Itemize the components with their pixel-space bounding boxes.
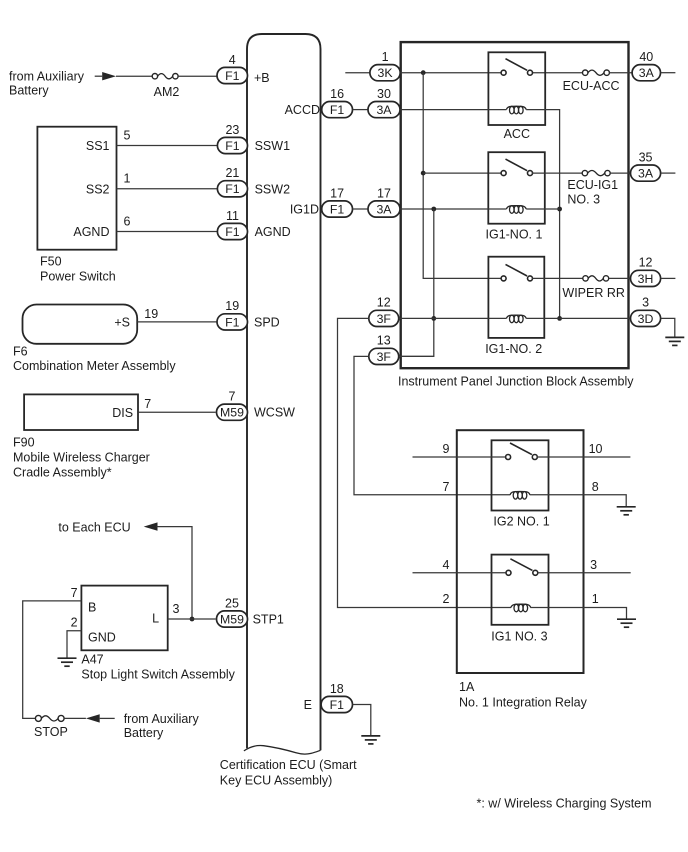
svg-text:3K: 3K bbox=[378, 66, 394, 80]
svg-text:STP1: STP1 bbox=[253, 613, 284, 627]
svg-text:5: 5 bbox=[124, 128, 131, 142]
svg-text:F1: F1 bbox=[330, 103, 345, 117]
connector F1 pin 11 (AGND) bbox=[217, 209, 247, 240]
wire IG1 NO.3 coil to ground bbox=[530, 608, 626, 620]
connector 3A pin 40 bbox=[632, 50, 660, 81]
ground symbol pin 8 bbox=[617, 507, 636, 515]
svg-text:from Auxiliary: from Auxiliary bbox=[124, 712, 200, 726]
connector F1 pin 16 (ACCD) bbox=[322, 87, 353, 118]
wire 3F-12 to IG1-NO.2 coil bbox=[399, 317, 507, 319]
svg-text:SSW1: SSW1 bbox=[255, 139, 290, 153]
svg-text:35: 35 bbox=[639, 150, 653, 164]
relay IG1-NO.1 coil bbox=[506, 206, 526, 214]
svg-text:2: 2 bbox=[443, 592, 450, 606]
connector F1 pin 4 (+B) bbox=[217, 53, 248, 84]
svg-text:3: 3 bbox=[642, 296, 649, 310]
svg-text:A47: A47 bbox=[81, 652, 103, 666]
connector M59 pin 25 (STP1) bbox=[217, 596, 248, 627]
fuse AM2 bbox=[152, 74, 179, 100]
svg-text:DIS: DIS bbox=[112, 406, 133, 420]
svg-text:Instrument Panel Junction Bloc: Instrument Panel Junction Block Assembly bbox=[398, 375, 634, 389]
svg-text:11: 11 bbox=[226, 209, 239, 223]
svg-text:F1: F1 bbox=[225, 225, 240, 239]
svg-text:NO. 3: NO. 3 bbox=[567, 193, 600, 207]
svg-text:Mobile Wireless Charger: Mobile Wireless Charger bbox=[13, 451, 150, 465]
arrow from Auxiliary Battery (points left) bbox=[86, 714, 115, 722]
wire pin 4 stub to IG1 NO.3 switch bbox=[413, 572, 506, 574]
wire IG2 NO.1 switch to pin 10 stub bbox=[537, 456, 631, 458]
wire to IG1-NO.1 switch bbox=[423, 172, 501, 174]
ECU wavy bottom edge bbox=[244, 746, 321, 755]
svg-text:3H: 3H bbox=[638, 272, 654, 286]
svg-text:8: 8 bbox=[592, 480, 599, 494]
svg-text:19: 19 bbox=[144, 307, 158, 321]
svg-text:F1: F1 bbox=[225, 69, 240, 83]
ground symbol E pin bbox=[361, 736, 380, 744]
relay IG1-NO.1 box bbox=[488, 152, 545, 224]
connector 3H pin 12 bbox=[631, 256, 661, 287]
svg-text:Battery: Battery bbox=[124, 726, 164, 740]
svg-text:3F: 3F bbox=[377, 312, 392, 326]
svg-text:L: L bbox=[152, 612, 159, 626]
wire ACC switch to fuse ECU-ACC bbox=[532, 72, 583, 74]
svg-text:SPD: SPD bbox=[254, 315, 280, 329]
wire IG1-NO.1 coil to common bbox=[526, 208, 559, 210]
svg-text:M59: M59 bbox=[220, 612, 244, 626]
svg-text:13: 13 bbox=[377, 334, 391, 348]
svg-text:F50: F50 bbox=[40, 255, 62, 269]
svg-text:2: 2 bbox=[71, 615, 78, 629]
stub wire right of 3H-12 bbox=[661, 277, 676, 279]
svg-text:3A: 3A bbox=[376, 202, 392, 216]
fuse ECU-ACC bbox=[563, 70, 620, 93]
connector M59 pin 7 (WCSW) bbox=[217, 390, 248, 421]
svg-text:WCSW: WCSW bbox=[254, 406, 295, 420]
junction node A top bbox=[421, 70, 426, 75]
svg-text:7: 7 bbox=[144, 397, 151, 411]
svg-text:Power Switch: Power Switch bbox=[40, 270, 116, 284]
wire +S to F1 bbox=[137, 321, 217, 323]
relay IG1 NO.3 box bbox=[492, 555, 549, 625]
connector 3F pin 12 bbox=[369, 296, 399, 327]
connector F1 pin 17 (IG1D) bbox=[322, 186, 353, 217]
svg-text:F1: F1 bbox=[330, 202, 345, 216]
wire IG1-NO.2 switch to fuse bbox=[532, 277, 583, 279]
svg-text:1: 1 bbox=[592, 592, 599, 606]
fuse STOP bbox=[34, 715, 68, 739]
svg-text:B: B bbox=[88, 601, 96, 615]
junction node coil common at IG1-NO.1 bbox=[557, 207, 562, 212]
svg-text:Cradle Assembly*: Cradle Assembly* bbox=[13, 466, 112, 480]
svg-text:3A: 3A bbox=[639, 66, 655, 80]
svg-text:30: 30 bbox=[377, 87, 391, 101]
wire SS1 to F1 bbox=[117, 145, 218, 147]
svg-text:from Auxiliary: from Auxiliary bbox=[9, 70, 85, 84]
svg-text:Combination Meter Assembly: Combination Meter Assembly bbox=[13, 359, 176, 373]
power switch F50 box bbox=[37, 127, 116, 250]
vertical wire IG1D feed bbox=[399, 209, 434, 356]
svg-text:18: 18 bbox=[330, 682, 344, 696]
svg-text:F1: F1 bbox=[330, 698, 345, 712]
wire 3F-13 down to IG2 NO.1 coil bbox=[354, 356, 510, 494]
junction node B top bbox=[431, 207, 436, 212]
svg-text:16: 16 bbox=[330, 87, 344, 101]
svg-text:F6: F6 bbox=[13, 345, 28, 359]
svg-text:3: 3 bbox=[590, 558, 597, 572]
svg-text:25: 25 bbox=[225, 596, 239, 610]
wire E to ground bbox=[353, 705, 371, 736]
connector F1 pin 18 (E) bbox=[321, 682, 352, 713]
ground symbol stop light switch bbox=[58, 658, 77, 666]
svg-text:10: 10 bbox=[589, 442, 603, 456]
svg-text:19: 19 bbox=[225, 299, 239, 313]
connector 3A pin 17 bbox=[368, 186, 400, 217]
wire 3F-12 down to IG1 NO.3 coil bbox=[338, 318, 512, 607]
svg-text:1A: 1A bbox=[459, 680, 475, 694]
stop light switch A47 box bbox=[81, 586, 167, 651]
svg-text:Stop Light Switch Assembly: Stop Light Switch Assembly bbox=[81, 668, 235, 682]
relay IG2 NO.1 switch contact bbox=[506, 443, 538, 460]
wire ACC coil to common vertical bbox=[526, 110, 559, 319]
connector F1 pin 19 (SPD) bbox=[217, 299, 248, 330]
svg-text:F1: F1 bbox=[225, 139, 240, 153]
svg-text:+B: +B bbox=[254, 71, 270, 85]
svg-text:Battery: Battery bbox=[9, 84, 49, 98]
wire fuse to 3A-40 bbox=[609, 72, 632, 74]
wire F1-17 to 3A-17 bbox=[353, 208, 369, 210]
wire SS2 to F1 bbox=[117, 188, 218, 190]
relay IG1-NO.2 switch contact bbox=[501, 264, 532, 281]
connector F1 pin 23 (SSW1) bbox=[217, 123, 247, 154]
wire 3K to ACC switch bbox=[400, 72, 501, 74]
wire AGND to F1 bbox=[117, 231, 218, 233]
svg-text:3: 3 bbox=[173, 602, 180, 616]
svg-text:1: 1 bbox=[124, 172, 131, 186]
fuse WIPER RR bbox=[562, 276, 625, 300]
svg-text:9: 9 bbox=[443, 442, 450, 456]
svg-text:F90: F90 bbox=[13, 436, 35, 450]
relay IG1 NO.3 coil bbox=[511, 604, 531, 612]
connector F1 pin 21 (SSW2) bbox=[217, 166, 247, 197]
wire to Each ECU branch bbox=[157, 527, 193, 619]
stub wire left of 3K bbox=[345, 72, 370, 74]
wire fuse AM2 to connector F1 bbox=[178, 75, 217, 77]
wire GND to ground bbox=[67, 631, 81, 659]
svg-text:IG2 NO. 1: IG2 NO. 1 bbox=[493, 515, 549, 529]
svg-text:IG1D: IG1D bbox=[290, 203, 319, 217]
vertical wire switch feed bbox=[423, 73, 501, 279]
stub wire right of 3A-40 bbox=[661, 72, 676, 74]
relay IG1-NO.2 box bbox=[488, 257, 544, 338]
svg-text:IG1-NO. 1: IG1-NO. 1 bbox=[486, 228, 543, 242]
arrow to Each ECU (points left) bbox=[144, 522, 158, 530]
svg-text:6: 6 bbox=[124, 214, 131, 228]
wireless charger F90 box bbox=[24, 394, 138, 430]
svg-text:IG1 NO. 3: IG1 NO. 3 bbox=[491, 629, 547, 643]
svg-text:F1: F1 bbox=[225, 182, 240, 196]
svg-text:21: 21 bbox=[225, 166, 239, 180]
wire STOP fuse to arrow bbox=[64, 717, 86, 719]
wire arrow to fuse AM2 bbox=[116, 75, 152, 77]
No.1 Integration Relay outer box bbox=[457, 430, 584, 673]
svg-text:to Each ECU: to Each ECU bbox=[58, 520, 130, 534]
connector 3A pin 30 bbox=[368, 87, 400, 118]
svg-text:WIPER RR: WIPER RR bbox=[562, 286, 625, 300]
wire IG1 NO.3 switch to pin 3 stub bbox=[537, 572, 630, 574]
svg-text:3F: 3F bbox=[377, 350, 392, 364]
svg-text:STOP: STOP bbox=[34, 725, 68, 739]
svg-text:3A: 3A bbox=[638, 167, 654, 181]
junction node on STP1 wire bbox=[190, 617, 195, 622]
wire fuse to 3H-12 bbox=[609, 277, 631, 279]
svg-text:GND: GND bbox=[88, 631, 116, 645]
ground symbol 3D bbox=[665, 337, 684, 345]
wire IG1-NO.1 switch to fuse bbox=[532, 172, 582, 174]
wire pin 9 stub to IG2 NO.1 switch bbox=[413, 456, 506, 458]
relay IG2 NO.1 coil bbox=[510, 491, 530, 499]
svg-text:23: 23 bbox=[225, 123, 239, 137]
svg-text:AGND: AGND bbox=[255, 225, 291, 239]
svg-text:17: 17 bbox=[330, 186, 344, 200]
wire DIS to M59 bbox=[138, 411, 216, 413]
svg-text:AM2: AM2 bbox=[154, 85, 180, 99]
svg-text:AGND: AGND bbox=[73, 225, 109, 239]
Instrument Panel Junction Block box bbox=[401, 42, 629, 368]
svg-text:3D: 3D bbox=[638, 312, 654, 326]
svg-text:+S: +S bbox=[114, 315, 130, 329]
svg-text:ACCD: ACCD bbox=[285, 103, 320, 117]
svg-text:Key ECU Assembly): Key ECU Assembly) bbox=[220, 773, 333, 787]
connector 3K pin 1 bbox=[370, 50, 400, 81]
svg-text:M59: M59 bbox=[220, 406, 244, 420]
relay ACC box bbox=[488, 52, 545, 125]
relay IG1-NO.1 switch contact bbox=[501, 159, 532, 176]
wire 3D-3 to ground bbox=[661, 318, 675, 337]
svg-text:ACC: ACC bbox=[504, 127, 530, 141]
svg-text:7: 7 bbox=[443, 480, 450, 494]
junction node B at IG1-NO.2 coil bbox=[431, 316, 436, 321]
combination meter F6 box bbox=[23, 305, 138, 344]
wire fuse to 3A-35 bbox=[610, 172, 630, 174]
wire IG2 NO.1 coil to ground bbox=[530, 495, 627, 507]
fuse ECU-IG1 NO.3 bbox=[582, 170, 610, 175]
relay IG1 NO.3 switch contact bbox=[506, 559, 538, 576]
wire L to M59 (STP1) bbox=[168, 618, 216, 620]
Certification ECU body outline bbox=[247, 34, 321, 750]
relay ACC switch contact bbox=[501, 59, 532, 75]
svg-text:12: 12 bbox=[639, 256, 653, 270]
svg-text:4: 4 bbox=[229, 53, 236, 67]
relay IG1-NO.2 coil bbox=[506, 315, 526, 323]
junction node A at IG1-NO.1 switch bbox=[421, 171, 426, 176]
svg-text:12: 12 bbox=[377, 296, 391, 310]
wire IG1-NO.2 coil to 3D-3 bbox=[526, 317, 630, 319]
svg-text:7: 7 bbox=[229, 390, 236, 404]
svg-text:17: 17 bbox=[377, 186, 391, 200]
svg-text:ECU-ACC: ECU-ACC bbox=[563, 79, 620, 93]
svg-text:4: 4 bbox=[443, 558, 450, 572]
svg-text:SS2: SS2 bbox=[86, 182, 110, 196]
connector 3F pin 13 bbox=[369, 334, 399, 365]
svg-text:F1: F1 bbox=[225, 315, 240, 329]
wire F1-16 to 3A-30 bbox=[353, 109, 369, 111]
svg-text:Certification ECU (Smart: Certification ECU (Smart bbox=[220, 758, 357, 772]
wire 3F-13 to vertical B bbox=[399, 355, 434, 357]
wire 3A-30 to ACC coil bbox=[400, 109, 506, 111]
relay ACC coil bbox=[506, 106, 526, 114]
svg-text:No. 1 Integration Relay: No. 1 Integration Relay bbox=[459, 696, 588, 710]
svg-text:ECU-IG1: ECU-IG1 bbox=[567, 178, 618, 192]
junction node coil common at IG1-NO.2 bbox=[557, 316, 562, 321]
ground symbol pin 1 bbox=[617, 619, 636, 627]
wire B to STOP fuse bbox=[23, 601, 82, 719]
relay IG2 NO.1 box bbox=[492, 440, 549, 510]
svg-text:E: E bbox=[304, 698, 312, 712]
svg-text:*: w/ Wireless Charging System: *: w/ Wireless Charging System bbox=[477, 797, 652, 811]
connector 3D pin 3 bbox=[631, 296, 661, 327]
svg-text:1: 1 bbox=[382, 50, 389, 64]
svg-text:7: 7 bbox=[71, 586, 78, 600]
svg-text:40: 40 bbox=[639, 50, 653, 64]
svg-text:SSW2: SSW2 bbox=[255, 182, 290, 196]
wire 3A-17 to IG1-NO.1 coil bbox=[400, 208, 506, 210]
arrow to +B wire (points right) bbox=[95, 72, 116, 80]
connector 3A pin 35 bbox=[631, 150, 661, 181]
svg-text:IG1-NO. 2: IG1-NO. 2 bbox=[485, 342, 542, 356]
svg-text:SS1: SS1 bbox=[86, 139, 110, 153]
stub wire right of 3A-35 bbox=[661, 172, 676, 174]
svg-text:3A: 3A bbox=[376, 103, 392, 117]
